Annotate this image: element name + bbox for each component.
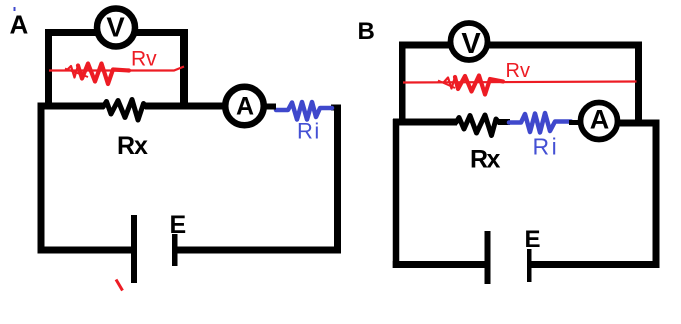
svg-text:Rx: Rx	[117, 132, 148, 160]
svg-text:Rx: Rx	[470, 146, 501, 174]
svg-text:E: E	[525, 226, 541, 253]
svg-text:V: V	[461, 28, 481, 60]
svg-text:Rv: Rv	[131, 48, 157, 71]
svg-text:A: A	[236, 93, 254, 121]
svg-text:Ri: Ri	[533, 134, 560, 160]
svg-text:Ri: Ri	[297, 119, 321, 144]
svg-text:B: B	[358, 18, 375, 45]
svg-text:V: V	[106, 12, 125, 43]
svg-text:E: E	[170, 211, 187, 239]
svg-text:A: A	[10, 10, 29, 40]
svg-text:Rv: Rv	[506, 60, 530, 82]
svg-text:A: A	[590, 105, 610, 135]
